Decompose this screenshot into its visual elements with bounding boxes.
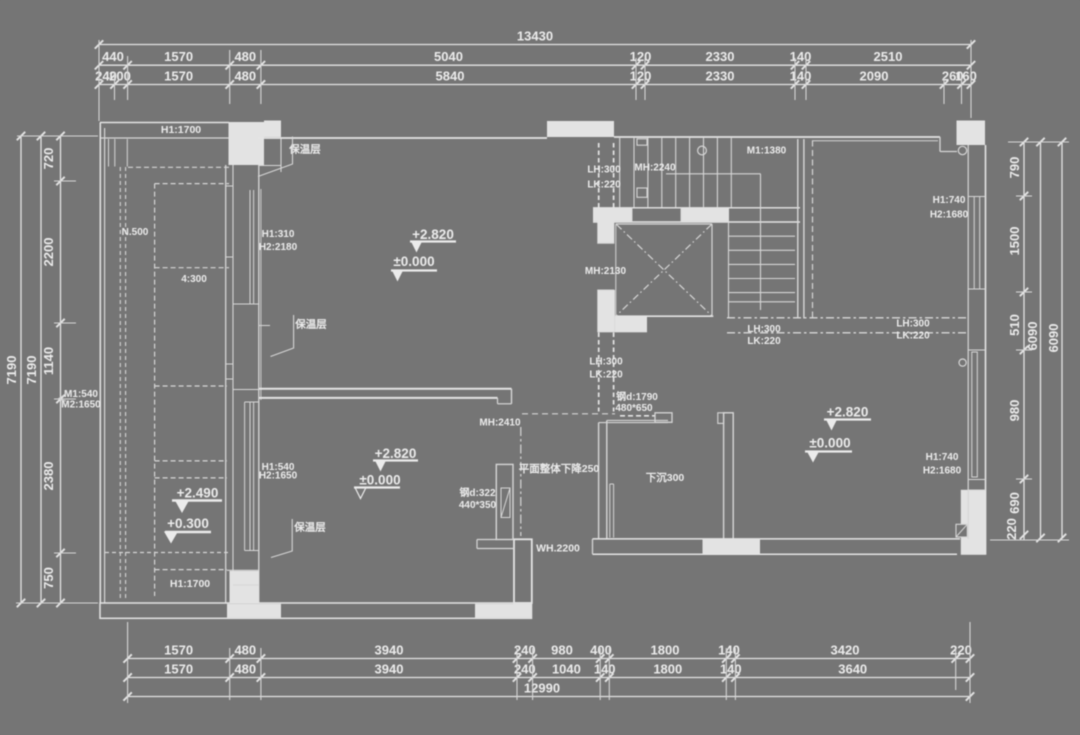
column bottom pier light block xyxy=(230,571,259,603)
hinge circle stair xyxy=(698,146,707,155)
svg-text:790: 790 xyxy=(1007,157,1022,179)
elevator shaft box xyxy=(616,223,712,225)
svg-text:510: 510 xyxy=(1007,314,1022,336)
right wall window upper xyxy=(974,197,980,290)
inner face line right room xyxy=(812,140,938,142)
shaft X cross dashed xyxy=(617,225,712,316)
top wall left segment xyxy=(100,122,229,124)
svg-text:1570: 1570 xyxy=(164,643,193,658)
dashed insulation pair left strip xyxy=(119,167,121,601)
svg-text:400: 400 xyxy=(590,643,612,658)
svg-text:4:300: 4:300 xyxy=(181,274,207,285)
svg-text:140: 140 xyxy=(790,69,812,84)
svg-text:2380: 2380 xyxy=(41,462,56,491)
svg-text:H2:1680: H2:1680 xyxy=(923,466,962,477)
svg-text:140: 140 xyxy=(718,643,740,658)
top wall inner face left xyxy=(100,137,229,139)
svg-text:120: 120 xyxy=(630,49,652,64)
svg-text:H1:740: H1:740 xyxy=(933,195,966,206)
window pane lines upper xyxy=(249,190,251,304)
svg-text:+2.820: +2.820 xyxy=(827,405,869,420)
lower door dashed verticals xyxy=(598,333,600,412)
svg-text:480: 480 xyxy=(234,69,256,84)
left wall window mullions xyxy=(108,139,110,167)
top wall right segment xyxy=(614,136,940,138)
svg-text:H2:2180: H2:2180 xyxy=(259,242,298,253)
svg-text:±0.000: ±0.000 xyxy=(393,254,434,269)
flue rect xyxy=(496,464,513,539)
svg-text:钢d:1790: 钢d:1790 xyxy=(616,390,658,403)
bottom wall band left xyxy=(100,603,532,618)
svg-text:LH:300: LH:300 xyxy=(896,319,930,330)
svg-text:220: 220 xyxy=(1004,518,1019,540)
svg-text:±0.000: ±0.000 xyxy=(809,436,850,451)
bottom wall band middle/right xyxy=(593,538,961,540)
svg-text:保温层: 保温层 xyxy=(294,318,327,331)
svg-text:3940: 3940 xyxy=(375,662,404,677)
svg-text:保温层: 保温层 xyxy=(293,521,326,534)
svg-text:440: 440 xyxy=(102,49,124,64)
svg-text:±0.000: ±0.000 xyxy=(359,473,400,488)
interior wall end cap xyxy=(511,389,513,404)
svg-text:H1:1700: H1:1700 xyxy=(170,578,210,590)
middle room top edge xyxy=(607,419,668,421)
removed wall dashed rows xyxy=(727,317,968,319)
top-right wall step xyxy=(939,137,941,152)
door frame marks xyxy=(637,139,647,145)
svg-text:钢d:322: 钢d:322 xyxy=(459,486,496,499)
right outer wall xyxy=(967,145,969,539)
svg-text:690: 690 xyxy=(1007,492,1022,514)
stair door dashed top xyxy=(598,143,600,208)
svg-text:140: 140 xyxy=(720,662,742,677)
svg-text:LH:300: LH:300 xyxy=(589,357,623,368)
svg-text:440*350: 440*350 xyxy=(459,500,497,511)
svg-text:保温层: 保温层 xyxy=(288,143,321,156)
svg-text:720: 720 xyxy=(41,148,56,170)
flue inner rect xyxy=(501,488,510,518)
wall pillar block top-right xyxy=(957,121,986,146)
svg-text:7190: 7190 xyxy=(24,356,39,385)
svg-text:LK:220: LK:220 xyxy=(896,331,930,342)
door lintel left xyxy=(655,413,672,423)
left dimension chain xyxy=(20,136,22,603)
right dimension chain xyxy=(1023,142,1025,540)
svg-text:3640: 3640 xyxy=(838,662,867,677)
svg-text:LH:300: LH:300 xyxy=(747,324,781,335)
svg-text:N.500: N.500 xyxy=(122,227,149,238)
svg-text:480: 480 xyxy=(234,662,256,677)
svg-text:1140: 1140 xyxy=(41,347,56,375)
svg-text:480*650: 480*650 xyxy=(615,403,653,414)
svg-text:120: 120 xyxy=(630,69,652,84)
svg-text:3420: 3420 xyxy=(831,643,860,658)
stair rail xyxy=(666,173,761,175)
svg-text:M1:1380: M1:1380 xyxy=(747,146,787,157)
right wall window lower xyxy=(972,352,978,477)
corner notch square xyxy=(956,524,967,537)
svg-text:980: 980 xyxy=(551,643,573,658)
beam dashed line xyxy=(522,413,615,415)
svg-text:2090: 2090 xyxy=(860,69,889,84)
svg-text:MH:2240: MH:2240 xyxy=(634,163,676,174)
svg-text:220: 220 xyxy=(950,643,972,658)
top dimension chain xyxy=(99,44,971,46)
svg-text:M2:1650: M2:1650 xyxy=(61,400,101,411)
svg-text:2200: 2200 xyxy=(41,238,56,267)
svg-text:140: 140 xyxy=(790,49,812,64)
svg-text:平面整体下降250: 平面整体下降250 xyxy=(519,462,600,475)
svg-text:LK:220: LK:220 xyxy=(587,180,621,191)
insulation dashed vertical xyxy=(812,141,814,319)
wall pillar block top-left xyxy=(229,122,265,165)
elevator wall foot xyxy=(615,317,647,332)
left outer wall xyxy=(99,123,101,604)
svg-text:+2.820: +2.820 xyxy=(375,446,417,461)
dashed vertical left strip xyxy=(154,184,156,596)
stair upper run treads xyxy=(619,138,621,207)
svg-text:6090: 6090 xyxy=(1025,322,1040,351)
svg-text:160: 160 xyxy=(955,69,977,84)
shaft centerline dashed xyxy=(520,427,522,536)
flue base xyxy=(477,539,496,541)
stair well edge vertical xyxy=(728,222,730,318)
wall pillar block 2 xyxy=(264,121,281,138)
svg-text:480: 480 xyxy=(234,643,256,658)
interior wall horizontal xyxy=(259,388,512,390)
bottom-right corner block xyxy=(961,490,986,555)
svg-text:H1:1700: H1:1700 xyxy=(161,124,201,136)
svg-text:下沉300: 下沉300 xyxy=(646,471,685,484)
svg-text:980: 980 xyxy=(1007,400,1022,422)
stair right run treads xyxy=(728,235,795,237)
svg-text:+0.300: +0.300 xyxy=(167,516,209,531)
elevator door gap caps xyxy=(597,242,614,244)
svg-text:140: 140 xyxy=(594,662,616,677)
stair landing band xyxy=(593,207,800,209)
stair right wall xyxy=(797,139,799,319)
svg-text:13430: 13430 xyxy=(517,29,553,44)
svg-text:480: 480 xyxy=(234,49,256,64)
left window mullion column xyxy=(225,165,227,603)
hinge circle right wall xyxy=(959,359,966,366)
svg-text:+2.490: +2.490 xyxy=(177,486,219,501)
svg-text:WH.2200: WH.2200 xyxy=(536,543,580,555)
svg-text:LK:220: LK:220 xyxy=(747,336,781,347)
svg-text:5040: 5040 xyxy=(434,49,463,64)
svg-text:6090: 6090 xyxy=(1046,324,1061,353)
svg-text:2330: 2330 xyxy=(706,49,735,64)
middle room right wall bar xyxy=(724,413,734,540)
svg-text:12990: 12990 xyxy=(524,681,560,696)
svg-text:MH:2410: MH:2410 xyxy=(479,418,521,429)
svg-text:MH:2130: MH:2130 xyxy=(585,266,627,277)
svg-text:750: 750 xyxy=(41,567,56,589)
svg-text:+2.820: +2.820 xyxy=(412,227,454,242)
svg-text:1800: 1800 xyxy=(651,643,680,658)
svg-text:M1:540: M1:540 xyxy=(64,389,98,400)
window pane lines lower xyxy=(244,402,246,551)
elevator wall bar upper xyxy=(597,208,614,243)
bottom dimension chain xyxy=(128,658,970,660)
middle room left wall xyxy=(598,423,600,539)
svg-text:H1:310: H1:310 xyxy=(262,229,295,240)
dashed rows left strip xyxy=(128,166,229,168)
block2 cell below xyxy=(259,165,281,167)
shaft box middle-bottom xyxy=(514,539,532,603)
svg-text:LH:300: LH:300 xyxy=(587,165,621,176)
top wall middle segment xyxy=(258,137,547,139)
hinge circle top-right xyxy=(958,146,966,154)
svg-text:1500: 1500 xyxy=(1007,227,1022,256)
svg-text:2510: 2510 xyxy=(874,49,903,64)
wall pillar block top-center xyxy=(547,121,614,137)
svg-text:H1:740: H1:740 xyxy=(926,452,959,463)
svg-text:1800: 1800 xyxy=(653,662,682,677)
column cross ties xyxy=(226,185,233,187)
svg-text:2330: 2330 xyxy=(706,69,735,84)
right wall cross caps xyxy=(968,196,985,198)
elevator wall bar lower xyxy=(597,290,615,332)
svg-text:1570: 1570 xyxy=(164,662,193,677)
svg-text:H2:1680: H2:1680 xyxy=(930,210,969,221)
svg-text:3940: 3940 xyxy=(375,643,404,658)
svg-text:H2:1650: H2:1650 xyxy=(259,471,298,482)
svg-text:1570: 1570 xyxy=(164,49,193,64)
svg-text:1570: 1570 xyxy=(164,69,193,84)
svg-text:LK:220: LK:220 xyxy=(589,370,623,381)
svg-text:5840: 5840 xyxy=(436,69,465,84)
svg-text:7190: 7190 xyxy=(4,356,19,385)
svg-text:1040: 1040 xyxy=(552,662,581,677)
